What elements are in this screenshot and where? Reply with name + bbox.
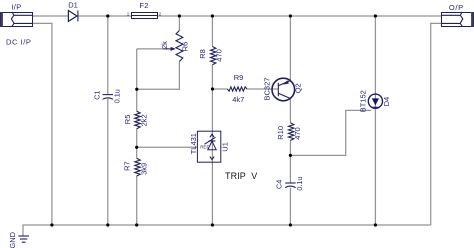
svg-text:3k9: 3k9 bbox=[139, 163, 148, 175]
node: D1 cathode / C1 junction bbox=[106, 14, 109, 17]
capacitor C1 bbox=[103, 95, 113, 100]
svg-text:R8: R8 bbox=[198, 49, 207, 59]
wire R9 right to Q2 base bbox=[247, 88, 278, 90]
resistor R5 bbox=[135, 111, 140, 129]
node: rail TL431 bbox=[211, 223, 214, 226]
wire O/P pin2 down to ground rail bbox=[431, 23, 442, 225]
node: rail D4 bbox=[374, 223, 377, 226]
resistor R7 bbox=[135, 158, 140, 176]
svg-text:D4: D4 bbox=[382, 97, 391, 107]
wire top rail junction through D4 to ground rail bbox=[374, 16, 376, 225]
svg-text:R6: R6 bbox=[181, 42, 190, 52]
node: R6 top junction bbox=[178, 14, 181, 17]
wire I/P pin2 down to ground rail bbox=[33, 23, 52, 225]
svg-text:2k2: 2k2 bbox=[140, 114, 149, 126]
svg-text:O/P: O/P bbox=[449, 3, 464, 12]
svg-text:C1: C1 bbox=[93, 91, 102, 100]
wire node down to R5 top bbox=[136, 49, 138, 111]
wire C4 bottom to ground rail bbox=[289, 188, 291, 225]
svg-text:R9: R9 bbox=[234, 73, 244, 82]
svg-text:2k: 2k bbox=[160, 41, 169, 49]
svg-text:470: 470 bbox=[293, 127, 302, 140]
node: R6 wiper / R5 junction bbox=[135, 88, 138, 91]
wire node down to TL431 cathode, through body bbox=[211, 89, 213, 162]
node: R10 / C4 / gate junction bbox=[289, 154, 292, 157]
wire top rail: fuse F2 to O/P connector bbox=[157, 15, 441, 17]
wire R6 bottom to wiper node bbox=[137, 61, 180, 89]
thyristor D4 BT152 bbox=[368, 94, 382, 108]
wire ground rail bbox=[23, 225, 431, 236]
wire top rail to Q2 emitter bbox=[289, 16, 291, 80]
svg-text:4k7: 4k7 bbox=[232, 95, 244, 104]
diode D1 bbox=[68, 11, 78, 22]
svg-text:TL431: TL431 bbox=[189, 133, 198, 154]
node: R8 top junction bbox=[211, 14, 214, 17]
ground symbol bbox=[18, 236, 29, 242]
wire Q2 collector to R10 top bbox=[289, 99, 291, 123]
fuse F2 bbox=[132, 13, 158, 19]
wire top rail to R6 top bbox=[178, 16, 180, 31]
wire R7 bottom to ground rail bbox=[136, 176, 138, 225]
wire top rail to R8 top bbox=[211, 16, 213, 47]
transistor Q2 BC327 bbox=[272, 78, 295, 101]
potentiometer R6 bbox=[164, 31, 183, 62]
shunt regulator U1 TL431 bbox=[197, 131, 220, 162]
svg-text:0.1u: 0.1u bbox=[295, 177, 304, 191]
node: D4 anode junction bbox=[374, 14, 377, 17]
capacitor C4 bbox=[285, 183, 295, 188]
connector J1 I/P bbox=[1, 12, 33, 27]
svg-text:I/P: I/P bbox=[11, 2, 21, 11]
svg-text:470: 470 bbox=[215, 49, 224, 62]
wire R8 bottom to node bbox=[211, 65, 213, 89]
wire R6 wiper horizontal bbox=[137, 48, 165, 50]
svg-text:U1: U1 bbox=[220, 142, 229, 152]
resistor R8 bbox=[211, 47, 216, 65]
node: rail I/P pin2 bbox=[50, 223, 53, 226]
wire divider node to TL431 REF bbox=[137, 146, 198, 148]
node: Q2 emitter junction bbox=[289, 14, 292, 17]
resistor R10 bbox=[289, 123, 294, 141]
node: rail R7 bbox=[135, 223, 138, 226]
svg-text:Q2: Q2 bbox=[293, 83, 302, 93]
svg-text:TRIP: TRIP bbox=[225, 171, 246, 181]
svg-text:BT152: BT152 bbox=[359, 90, 368, 112]
svg-text:R7: R7 bbox=[122, 161, 131, 171]
svg-text:D1: D1 bbox=[68, 1, 78, 10]
wire top rail: D1 cathode to fuse F2 bbox=[78, 15, 131, 17]
svg-text:REF: REF bbox=[200, 145, 209, 150]
wire top rail: I/P to D1 anode bbox=[33, 15, 69, 17]
svg-text:R5: R5 bbox=[123, 115, 132, 125]
node: rail C4 bbox=[289, 223, 292, 226]
svg-text:DC I/P: DC I/P bbox=[6, 38, 31, 47]
node: R5 / R7 / REF junction bbox=[135, 146, 138, 149]
wire C1 top bbox=[107, 16, 109, 94]
svg-text:0.1u: 0.1u bbox=[113, 89, 122, 103]
wire TL431 anode to ground rail bbox=[211, 162, 213, 225]
node: R8 / R9 junction bbox=[211, 87, 214, 90]
svg-text:C4: C4 bbox=[274, 180, 283, 189]
wire C1 bottom to ground rail bbox=[107, 99, 109, 225]
svg-text:R10: R10 bbox=[276, 126, 285, 140]
svg-text:GND: GND bbox=[8, 231, 17, 248]
wire node to R9 left bbox=[212, 88, 227, 90]
connector J2 O/P bbox=[441, 12, 473, 27]
node: rail C1 bbox=[106, 223, 109, 226]
svg-text:V: V bbox=[251, 171, 257, 181]
resistor R9 bbox=[227, 87, 247, 91]
wire R5 bottom through node to R7 top bbox=[136, 129, 138, 159]
wire R10 bottom through node to C4 top bbox=[289, 141, 291, 184]
svg-text:BC327: BC327 bbox=[262, 78, 271, 101]
svg-text:F2: F2 bbox=[139, 1, 148, 10]
wire gate: R10/C4 node to D4 gate bbox=[290, 110, 371, 155]
